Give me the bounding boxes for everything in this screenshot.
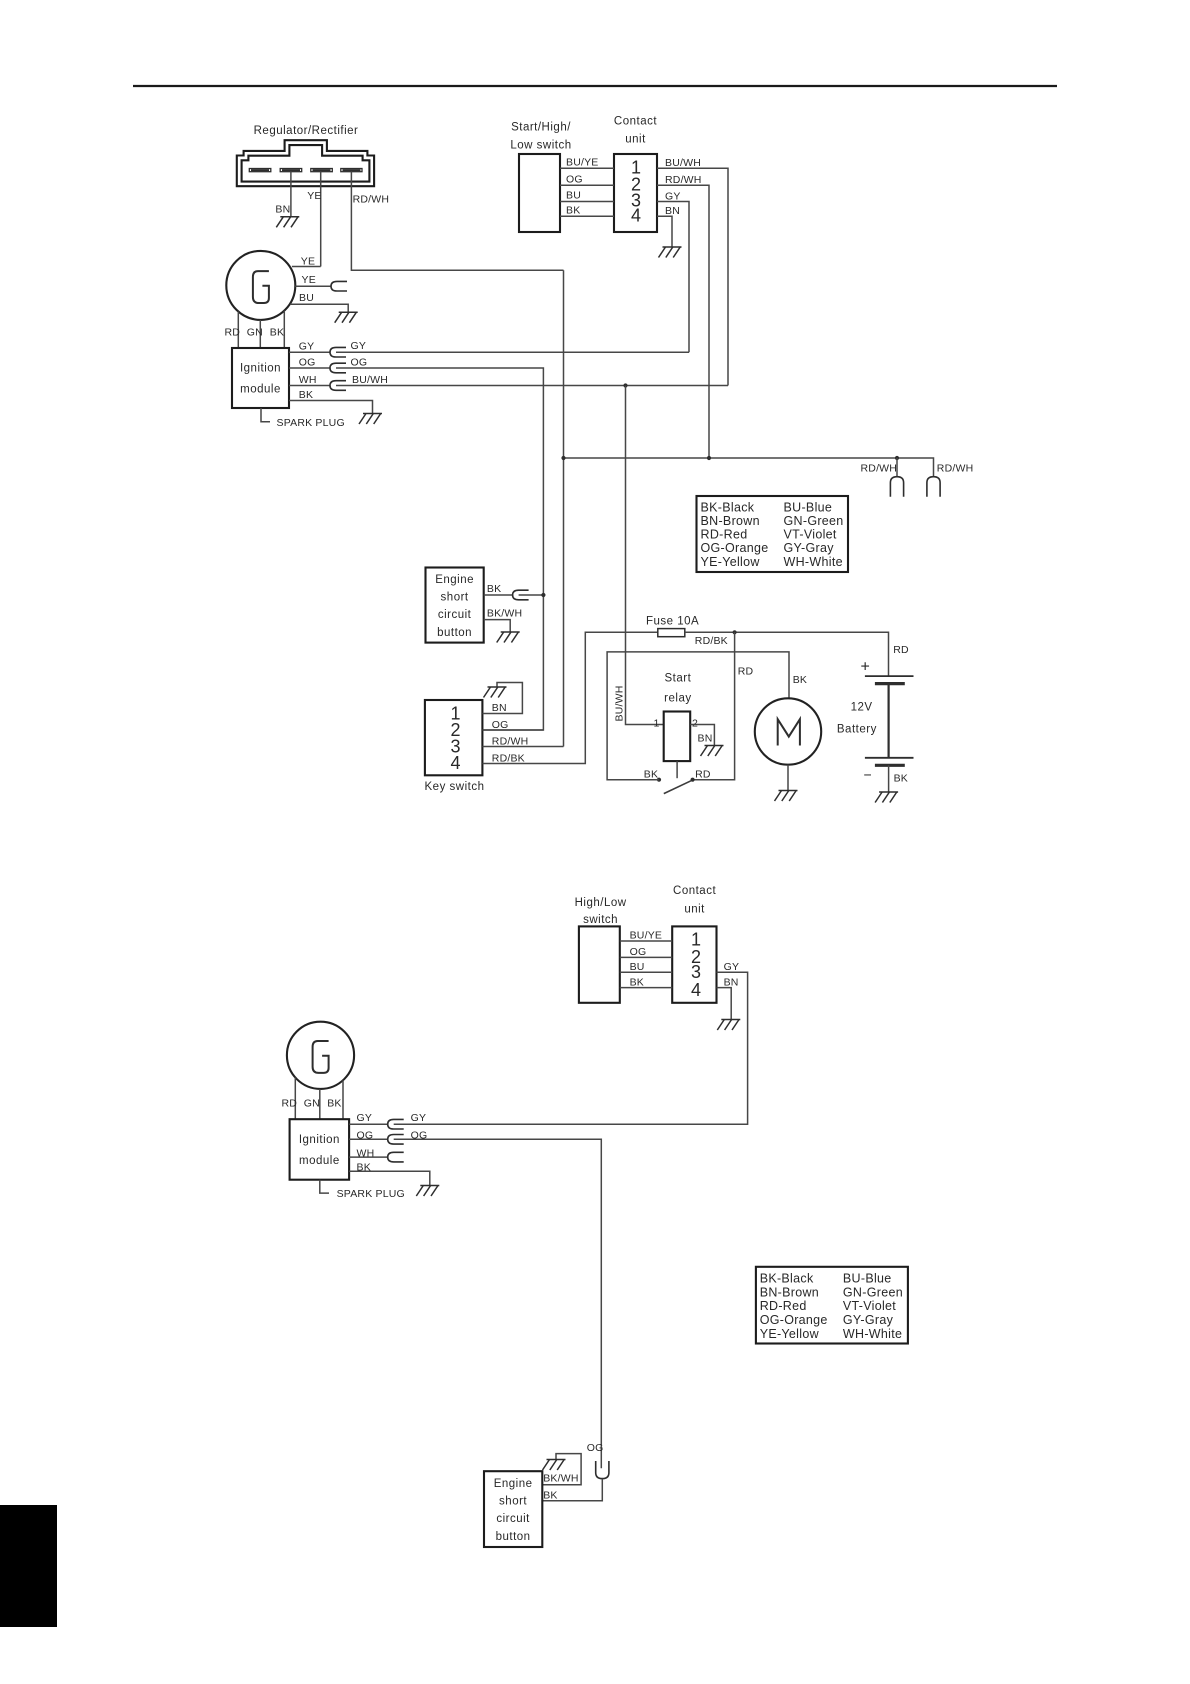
- svg-text:RD/WH: RD/WH: [861, 463, 898, 475]
- svg-text:BU-Blue: BU-Blue: [843, 1272, 892, 1286]
- spark plug lead (lower): [320, 1180, 329, 1193]
- svg-text:OG: OG: [351, 356, 368, 368]
- svg-text:−: −: [864, 767, 872, 783]
- svg-text:BK-Black: BK-Black: [701, 501, 755, 515]
- wire BU switch to contact: [560, 201, 614, 203]
- svg-text:4: 4: [450, 753, 460, 773]
- wire YE generator to open connector: [295, 285, 331, 287]
- svg-text:module: module: [240, 384, 281, 396]
- wire BK ignition module to ground (lower): [349, 1171, 430, 1185]
- svg-text:BK-Black: BK-Black: [760, 1272, 814, 1286]
- svg-text:BU/WH: BU/WH: [614, 686, 626, 722]
- svg-text:OG: OG: [630, 946, 647, 958]
- svg-text:SPARK PLUG: SPARK PLUG: [337, 1188, 405, 1200]
- svg-text:relay: relay: [664, 693, 691, 705]
- svg-text:GY: GY: [351, 340, 367, 352]
- svg-text:1: 1: [654, 718, 660, 730]
- spark plug lead: [261, 408, 270, 422]
- wire RD/WH bus: [564, 458, 934, 477]
- svg-text:GY: GY: [299, 341, 315, 353]
- svg-text:WH: WH: [299, 374, 317, 386]
- wire BU/YE switch to contact (lower): [620, 940, 672, 942]
- node RD/WH at contact drop: [707, 456, 711, 460]
- regulator/rectifier connector body: [237, 140, 374, 186]
- ground (ignition BK lower): [416, 1186, 439, 1197]
- wire WH ignition module pin (lower): [349, 1156, 388, 1158]
- wire GY to contact unit: [336, 351, 689, 353]
- wire BK switch to contact (lower): [620, 987, 672, 989]
- wire colour legend box 1: [697, 496, 849, 572]
- connector BK (mated): [513, 590, 529, 600]
- ground (regulator BN): [276, 217, 299, 228]
- svg-text:RD: RD: [282, 1098, 298, 1110]
- svg-text:Contact: Contact: [614, 116, 657, 128]
- contact unit box (lower): [672, 926, 716, 1002]
- svg-text:BU/YE: BU/YE: [630, 930, 663, 942]
- wire BK generator (lower): [342, 1080, 344, 1119]
- wire BK/WH engine button to ground (lower): [542, 1454, 581, 1485]
- battery plate 4: [875, 764, 905, 767]
- svg-text:GY: GY: [665, 191, 681, 203]
- svg-text:GN-Green: GN-Green: [843, 1285, 903, 1299]
- svg-text:BU: BU: [299, 292, 314, 304]
- svg-text:BK: BK: [793, 674, 807, 686]
- svg-text:BK: BK: [630, 976, 644, 988]
- svg-text:GY-Gray: GY-Gray: [843, 1313, 894, 1327]
- svg-text:RD: RD: [695, 769, 711, 781]
- svg-text:RD/BK: RD/BK: [492, 752, 525, 764]
- svg-text:RD/WH: RD/WH: [665, 174, 702, 186]
- engine short circuit button S1: [426, 568, 484, 643]
- wire OG ignition module pin: [289, 367, 330, 369]
- node RD/WH at regulator drop: [561, 456, 565, 460]
- start/high/low switch box: [519, 154, 560, 232]
- wire from OG terminal to engine button BK: [542, 1479, 602, 1501]
- connector OG (lower): [388, 1135, 404, 1145]
- svg-text:WH: WH: [357, 1147, 375, 1159]
- terminal RD/WH 1: [890, 477, 903, 497]
- wire OG to key switch: [336, 368, 543, 730]
- svg-text:BN-Brown: BN-Brown: [760, 1285, 819, 1299]
- wire BK ignition module to ground: [289, 401, 373, 414]
- wire BN contact pin4 to ground (lower): [717, 988, 732, 1020]
- ground (BU): [335, 312, 358, 323]
- connector GY (lower): [388, 1119, 404, 1129]
- svg-text:BU-Blue: BU-Blue: [784, 501, 833, 515]
- connector WH (lower): [388, 1152, 404, 1162]
- high/low switch box: [579, 926, 620, 1002]
- svg-text:YE: YE: [301, 256, 315, 268]
- wire RD generator to ignition module: [237, 312, 239, 349]
- svg-text:GY: GY: [411, 1112, 427, 1124]
- svg-text:2: 2: [692, 718, 698, 730]
- engine short circuit button (lower): [484, 1471, 542, 1547]
- svg-text:Low switch: Low switch: [510, 140, 571, 152]
- fuse 10A F1: [658, 629, 685, 637]
- ground (contact BN lower): [717, 1020, 740, 1031]
- svg-text:BN: BN: [724, 976, 739, 988]
- svg-text:RD/WH: RD/WH: [492, 735, 529, 747]
- wire RD/WH vertical to key switch: [563, 270, 565, 746]
- svg-text:YE: YE: [307, 190, 321, 202]
- wire BN contact pin4: [657, 216, 672, 246]
- svg-text:High/Low: High/Low: [575, 897, 627, 909]
- svg-text:YE-Yellow: YE-Yellow: [701, 555, 761, 569]
- wire BU/WH contact pin1: [657, 168, 728, 385]
- wire BK to OG node: [519, 594, 544, 596]
- wire BU generator to ground: [290, 304, 348, 312]
- node RD/WH at terminal: [895, 456, 899, 460]
- wire OG switch to contact (lower): [620, 956, 672, 958]
- svg-text:GY-Gray: GY-Gray: [784, 541, 835, 555]
- wire BN key switch to ground: [482, 683, 522, 714]
- node RD contact: [691, 778, 695, 782]
- ground (engine button BK/WH): [497, 632, 520, 643]
- svg-text:BK/WH: BK/WH: [487, 608, 522, 620]
- svg-text:RD/WH: RD/WH: [353, 193, 390, 205]
- svg-text:BN: BN: [698, 733, 713, 745]
- wire BK engine button: [484, 594, 513, 596]
- wire OG key switch: [482, 729, 543, 731]
- connector YE (open): [331, 281, 347, 291]
- svg-text:RD-Red: RD-Red: [760, 1299, 807, 1313]
- svg-text:VT-Violet: VT-Violet: [843, 1299, 896, 1313]
- wire motor to ground: [787, 765, 789, 791]
- ground (key switch BN): [484, 687, 507, 698]
- relay switch blade: [664, 780, 692, 793]
- generator G: [226, 251, 295, 320]
- connector GY: [330, 347, 346, 357]
- svg-text:BN: BN: [665, 205, 680, 217]
- svg-text:GY: GY: [357, 1112, 373, 1124]
- svg-text:Regulator/Rectifier: Regulator/Rectifier: [254, 125, 359, 137]
- svg-text:YE-Yellow: YE-Yellow: [760, 1327, 820, 1341]
- battery plate 3: [865, 757, 914, 759]
- wire RD down to relay contact: [693, 632, 735, 779]
- svg-text:4: 4: [631, 206, 641, 226]
- svg-text:SPARK PLUG: SPARK PLUG: [277, 417, 345, 429]
- svg-text:BU/WH: BU/WH: [352, 374, 388, 386]
- wire OG switch to contact: [560, 184, 614, 186]
- svg-text:BK: BK: [327, 1098, 341, 1110]
- wire WH ignition module pin: [289, 385, 330, 387]
- wire YE from regulator pin3: [320, 172, 322, 267]
- ignition module U1: [232, 348, 289, 408]
- svg-text:OG: OG: [492, 719, 509, 731]
- top rule: [133, 85, 1057, 87]
- ground (engine button BK/WH lower): [543, 1460, 566, 1471]
- svg-text:Engine: Engine: [435, 574, 474, 586]
- wire RD generator (lower): [294, 1078, 296, 1120]
- svg-text:YE: YE: [302, 274, 316, 286]
- svg-text:GN-Green: GN-Green: [784, 514, 844, 528]
- contact unit box: [614, 154, 657, 232]
- svg-text:VT-Violet: VT-Violet: [784, 528, 837, 542]
- svg-text:switch: switch: [583, 914, 618, 926]
- wire fuse to battery: [685, 632, 889, 676]
- wire BU/YE switch to contact: [560, 167, 614, 169]
- svg-text:BU/YE: BU/YE: [566, 156, 599, 168]
- wire YE generator top: [292, 266, 321, 268]
- svg-text:button: button: [496, 1531, 531, 1543]
- battery plate 1: [865, 675, 914, 677]
- wire BU/WH to contact unit: [336, 385, 728, 387]
- terminal RD/WH 2: [927, 477, 940, 497]
- wire GN generator to ignition module: [259, 320, 261, 348]
- svg-text:RD: RD: [893, 644, 909, 656]
- svg-text:Fuse 10A: Fuse 10A: [646, 616, 699, 628]
- generator G (lower): [287, 1022, 354, 1089]
- wire to RD/WH terminal 1: [896, 458, 898, 477]
- svg-text:GN: GN: [304, 1098, 320, 1110]
- svg-text:circuit: circuit: [438, 609, 472, 621]
- svg-text:BK: BK: [487, 583, 501, 595]
- ground (contact BN): [659, 247, 682, 258]
- svg-text:OG: OG: [587, 1442, 604, 1454]
- svg-text:button: button: [437, 627, 472, 639]
- regulator pin slots: [249, 169, 362, 172]
- node BU/WH junction: [623, 383, 627, 387]
- wire BK generator to ignition module: [283, 311, 285, 348]
- wire RD/WH from regulator pin4: [351, 172, 563, 271]
- svg-text:BU: BU: [630, 961, 645, 973]
- svg-text:BN: BN: [275, 204, 290, 216]
- svg-text:OG: OG: [357, 1129, 374, 1141]
- wire OG to engine button (lower): [394, 1139, 602, 1468]
- relay armature link: [676, 761, 678, 778]
- wire GY ignition module pin (lower): [349, 1123, 388, 1125]
- svg-text:RD/BK: RD/BK: [695, 635, 728, 647]
- wire colour legend box 2: [756, 1267, 908, 1344]
- wire battery negative to ground: [888, 765, 890, 791]
- wire GN generator (lower): [319, 1089, 321, 1119]
- svg-text:4: 4: [691, 980, 701, 1000]
- svg-text:Contact: Contact: [673, 885, 716, 897]
- svg-text:short: short: [441, 592, 469, 604]
- battery plate 2: [875, 682, 905, 685]
- svg-text:RD: RD: [225, 327, 241, 339]
- svg-text:OG: OG: [566, 173, 583, 185]
- svg-text:BK: BK: [270, 327, 284, 339]
- ground (battery): [875, 792, 898, 803]
- svg-text:OG-Orange: OG-Orange: [701, 541, 769, 555]
- ground (motor): [775, 791, 798, 802]
- wire BU switch to contact (lower): [620, 971, 672, 973]
- svg-text:circuit: circuit: [496, 1513, 530, 1525]
- svg-text:unit: unit: [684, 904, 705, 916]
- svg-text:BK: BK: [644, 769, 658, 781]
- svg-text:BK: BK: [299, 389, 313, 401]
- svg-text:Engine: Engine: [494, 1478, 533, 1490]
- node BK contact: [657, 778, 661, 782]
- wire OG ignition module pin (lower): [349, 1138, 388, 1140]
- svg-text:BK: BK: [357, 1161, 371, 1173]
- wire GY contact pin3 (lower): [394, 972, 748, 1124]
- svg-text:BK: BK: [543, 1489, 557, 1501]
- svg-text:BU/WH: BU/WH: [665, 157, 701, 169]
- start relay coil box K1: [664, 712, 691, 762]
- svg-text:WH-White: WH-White: [843, 1327, 902, 1341]
- svg-text:BN: BN: [492, 702, 507, 714]
- svg-text:BU: BU: [566, 190, 581, 202]
- svg-text:GY: GY: [724, 961, 740, 973]
- svg-text:OG: OG: [299, 356, 316, 368]
- svg-text:RD: RD: [738, 665, 754, 677]
- svg-text:RD/WH: RD/WH: [937, 463, 974, 475]
- wire RD/WH key switch: [482, 746, 563, 748]
- wire BK/WH engine button to ground: [484, 620, 511, 632]
- wire GY ignition module pin: [289, 351, 330, 353]
- svg-text:module: module: [299, 1155, 340, 1167]
- svg-text:Battery: Battery: [837, 724, 877, 736]
- svg-text:GN: GN: [247, 327, 263, 339]
- wire BN from regulator pin2: [290, 172, 292, 217]
- svg-text:unit: unit: [625, 134, 646, 146]
- svg-text:OG-Orange: OG-Orange: [760, 1313, 828, 1327]
- node OG/BK junction: [541, 593, 545, 597]
- connector WH: [330, 381, 346, 391]
- svg-text:BN-Brown: BN-Brown: [701, 514, 760, 528]
- svg-text:short: short: [499, 1496, 527, 1508]
- wire GY contact pin3: [657, 202, 689, 353]
- black printing mark bottom left: [0, 1505, 57, 1627]
- svg-text:Key switch: Key switch: [425, 781, 485, 793]
- wire RD/BK key switch to fuse: [482, 632, 657, 763]
- svg-text:RD-Red: RD-Red: [701, 528, 748, 542]
- svg-text:Ignition: Ignition: [240, 363, 281, 375]
- svg-text:Start: Start: [665, 673, 692, 685]
- svg-text:Start/High/: Start/High/: [511, 122, 571, 134]
- connector OG: [330, 363, 346, 373]
- starter motor M1: [755, 698, 821, 764]
- motor M glyph: [778, 719, 800, 745]
- svg-text:+: +: [861, 659, 870, 676]
- ignition module (lower): [290, 1119, 350, 1180]
- wire BK motor loop: [607, 652, 789, 780]
- node fuse line: [733, 630, 737, 634]
- wire BU/WH down to start relay: [626, 386, 664, 725]
- wire RD/WH contact pin2: [657, 185, 709, 458]
- wire relay pin2 to ground: [690, 725, 714, 746]
- wire BK switch to contact: [560, 215, 614, 217]
- svg-text:Ignition: Ignition: [299, 1134, 340, 1146]
- svg-text:BK: BK: [566, 204, 580, 216]
- ground (ignition BK): [359, 414, 382, 425]
- ground (relay BN): [701, 746, 724, 757]
- key switch box: [425, 700, 483, 775]
- svg-text:BK: BK: [894, 773, 908, 785]
- svg-text:BK/WH: BK/WH: [543, 1473, 578, 1485]
- svg-text:12V: 12V: [851, 702, 873, 714]
- svg-text:WH-White: WH-White: [784, 555, 843, 569]
- battery center rail: [887, 684, 889, 758]
